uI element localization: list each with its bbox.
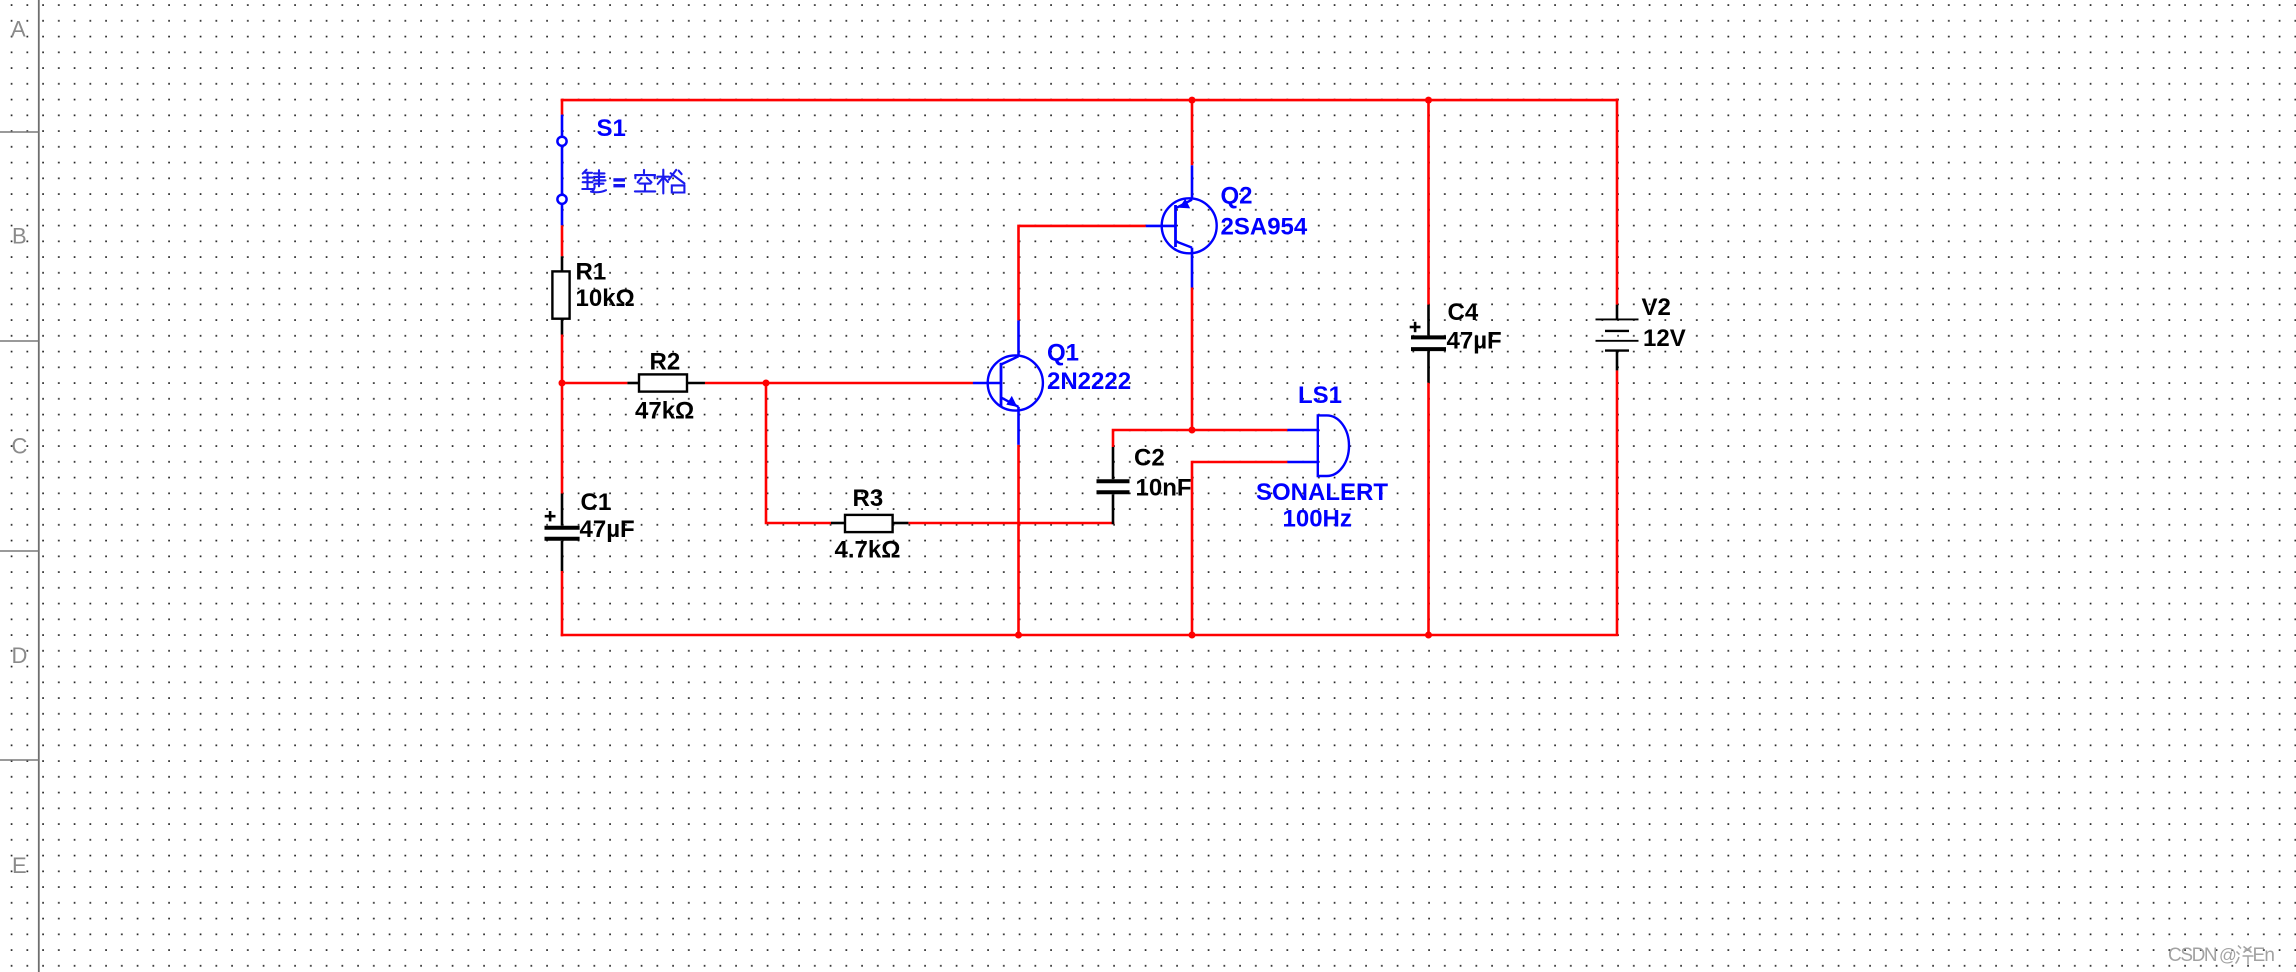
svg-text:D: D [12, 643, 28, 668]
ruler tick y=132 [0, 131, 39, 133]
svg-text:4.7kΩ: 4.7kΩ [835, 537, 901, 564]
ruler vertical border line [38, 0, 40, 972]
svg-text:En: En [2253, 945, 2275, 966]
wire node B down to R3 row [766, 383, 831, 523]
svg-text:Q1: Q1 [1047, 340, 1079, 367]
wire C4 top red [1427, 99, 1430, 305]
junction dot bottom rail C4 [1425, 632, 1432, 639]
wire S1 top stub [561, 99, 564, 115]
wire C2 top elbow to LS1 node [1113, 430, 1287, 447]
switch S1 [561, 115, 564, 226]
junction dot node B [763, 380, 770, 387]
wire node to R2 [562, 382, 627, 385]
wire R3 to C2 [908, 522, 1114, 525]
ruler tick y=341 [0, 340, 39, 342]
battery V2 [1596, 305, 1639, 371]
switch S1 contact circles [557, 137, 566, 146]
wire Q2 top red [1191, 99, 1194, 166]
svg-text:R2: R2 [650, 349, 681, 376]
svg-text:E: E [12, 853, 27, 878]
svg-text:R1: R1 [576, 259, 607, 286]
wire Q1 emitter red [1017, 445, 1020, 635]
resistor R2 [627, 374, 705, 391]
svg-text:A: A [11, 17, 26, 42]
wire Q1 collector red [1019, 226, 1146, 321]
junction dot top rail Q2 [1189, 97, 1196, 104]
wire bottom rail [561, 634, 1619, 637]
glyph ge [657, 170, 684, 194]
capacitor C4 [1410, 305, 1446, 383]
capacitor C1 [545, 494, 580, 572]
wire R2 to node B [705, 382, 766, 385]
wire C4 bottom red [1427, 383, 1430, 635]
watermark CSDN [2168, 945, 2274, 966]
wire C1 to bottom rail [561, 571, 564, 636]
svg-text:SONALERT: SONALERT [1256, 479, 1388, 506]
wire node to C1 [561, 383, 564, 494]
svg-text:R3: R3 [853, 485, 884, 512]
svg-text:Q2: Q2 [1221, 183, 1253, 210]
capacitor C2 [1097, 447, 1130, 524]
svg-text:B: B [12, 224, 27, 249]
wire node B to Q1 base [766, 382, 973, 385]
sonalert LS1 [1287, 415, 1349, 476]
equals sign [613, 180, 625, 186]
label key = space (CJK drawn as strokes) [582, 170, 606, 192]
resistor R3 [831, 515, 908, 532]
svg-text:10nF: 10nF [1136, 475, 1192, 502]
watermark ze glyph [2236, 946, 2254, 965]
resistor R1 [552, 256, 569, 334]
svg-text:C1: C1 [581, 489, 612, 516]
wire V2 bottom red [1616, 370, 1619, 635]
junction dot bottom rail Q1 [1015, 632, 1022, 639]
junction dot node R1-R2-C1 [559, 380, 566, 387]
svg-text:C: C [12, 434, 28, 459]
junction dot bottom rail LS1 [1189, 632, 1196, 639]
svg-text:47kΩ: 47kΩ [635, 398, 694, 425]
transistor Q1 [973, 320, 1043, 444]
Q2 emitter arrow [1179, 199, 1190, 209]
wire top rail [561, 99, 1619, 102]
glyph kong [635, 170, 655, 192]
svg-text:C4: C4 [1448, 299, 1479, 326]
svg-text:47µF: 47µF [1447, 328, 1502, 355]
svg-text:CSDN: CSDN [2168, 945, 2217, 966]
svg-text:2N2222: 2N2222 [1047, 368, 1131, 395]
svg-text:V2: V2 [1642, 294, 1671, 321]
wire V2 top red [1616, 99, 1619, 305]
wire R1 above red [561, 225, 564, 256]
svg-text:47µF: 47µF [580, 516, 635, 543]
svg-text:@: @ [2219, 945, 2237, 965]
svg-text:LS1: LS1 [1298, 382, 1342, 409]
junction dot top rail C4 [1425, 97, 1432, 104]
svg-text:2SA954: 2SA954 [1221, 214, 1308, 241]
ruler tick y=760 [0, 759, 39, 761]
svg-text:100Hz: 100Hz [1283, 506, 1352, 533]
wire Q2 bottom red to LS1 node [1191, 288, 1194, 431]
wire R1 below to node [561, 335, 564, 384]
transistor Q2 [1146, 165, 1217, 287]
svg-text:10kΩ: 10kΩ [576, 285, 635, 312]
junction dot LS1 node [1189, 427, 1196, 434]
wire LS1 bottom return [1192, 462, 1287, 635]
svg-text:12V: 12V [1643, 325, 1686, 352]
svg-text:S1: S1 [597, 115, 626, 142]
ruler tick y=551 [0, 550, 39, 552]
Q1 emitter arrow [1006, 396, 1017, 407]
svg-text:C2: C2 [1134, 445, 1165, 472]
